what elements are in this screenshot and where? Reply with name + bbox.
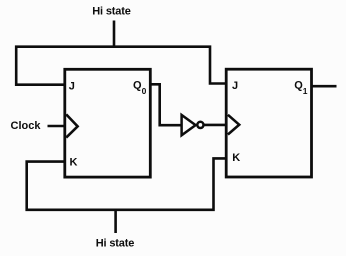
JK flip-flop U1 box <box>65 69 151 177</box>
clock chevron of U1 <box>66 114 77 137</box>
svg-text:Hi state: Hi state <box>96 238 135 250</box>
JK flip-flop U2 box <box>226 69 311 177</box>
wire Q1 output stub <box>312 85 337 88</box>
svg-text:J: J <box>232 80 238 92</box>
wire top bus (J1 to J2 high line) <box>16 47 226 85</box>
inverter U3 triangle <box>182 115 196 135</box>
wire bottom bus (K1 to K2 line) <box>27 158 227 209</box>
clock chevron of U2 <box>228 115 239 135</box>
wire clock lead <box>48 125 67 128</box>
wire Q0 output to inverter input <box>150 84 182 125</box>
svg-text:K: K <box>70 156 78 168</box>
svg-text:K: K <box>232 152 240 164</box>
wire from bottom bus to bottom Hi state label <box>114 210 117 233</box>
svg-text:J: J <box>69 81 75 93</box>
svg-text:Hi state: Hi state <box>92 6 131 18</box>
wire from top Hi state label to top bus <box>113 21 116 48</box>
inverter U3 bubble <box>197 122 203 128</box>
wire inverter output to clock of U2 <box>204 124 226 127</box>
svg-text:Clock: Clock <box>11 120 42 132</box>
